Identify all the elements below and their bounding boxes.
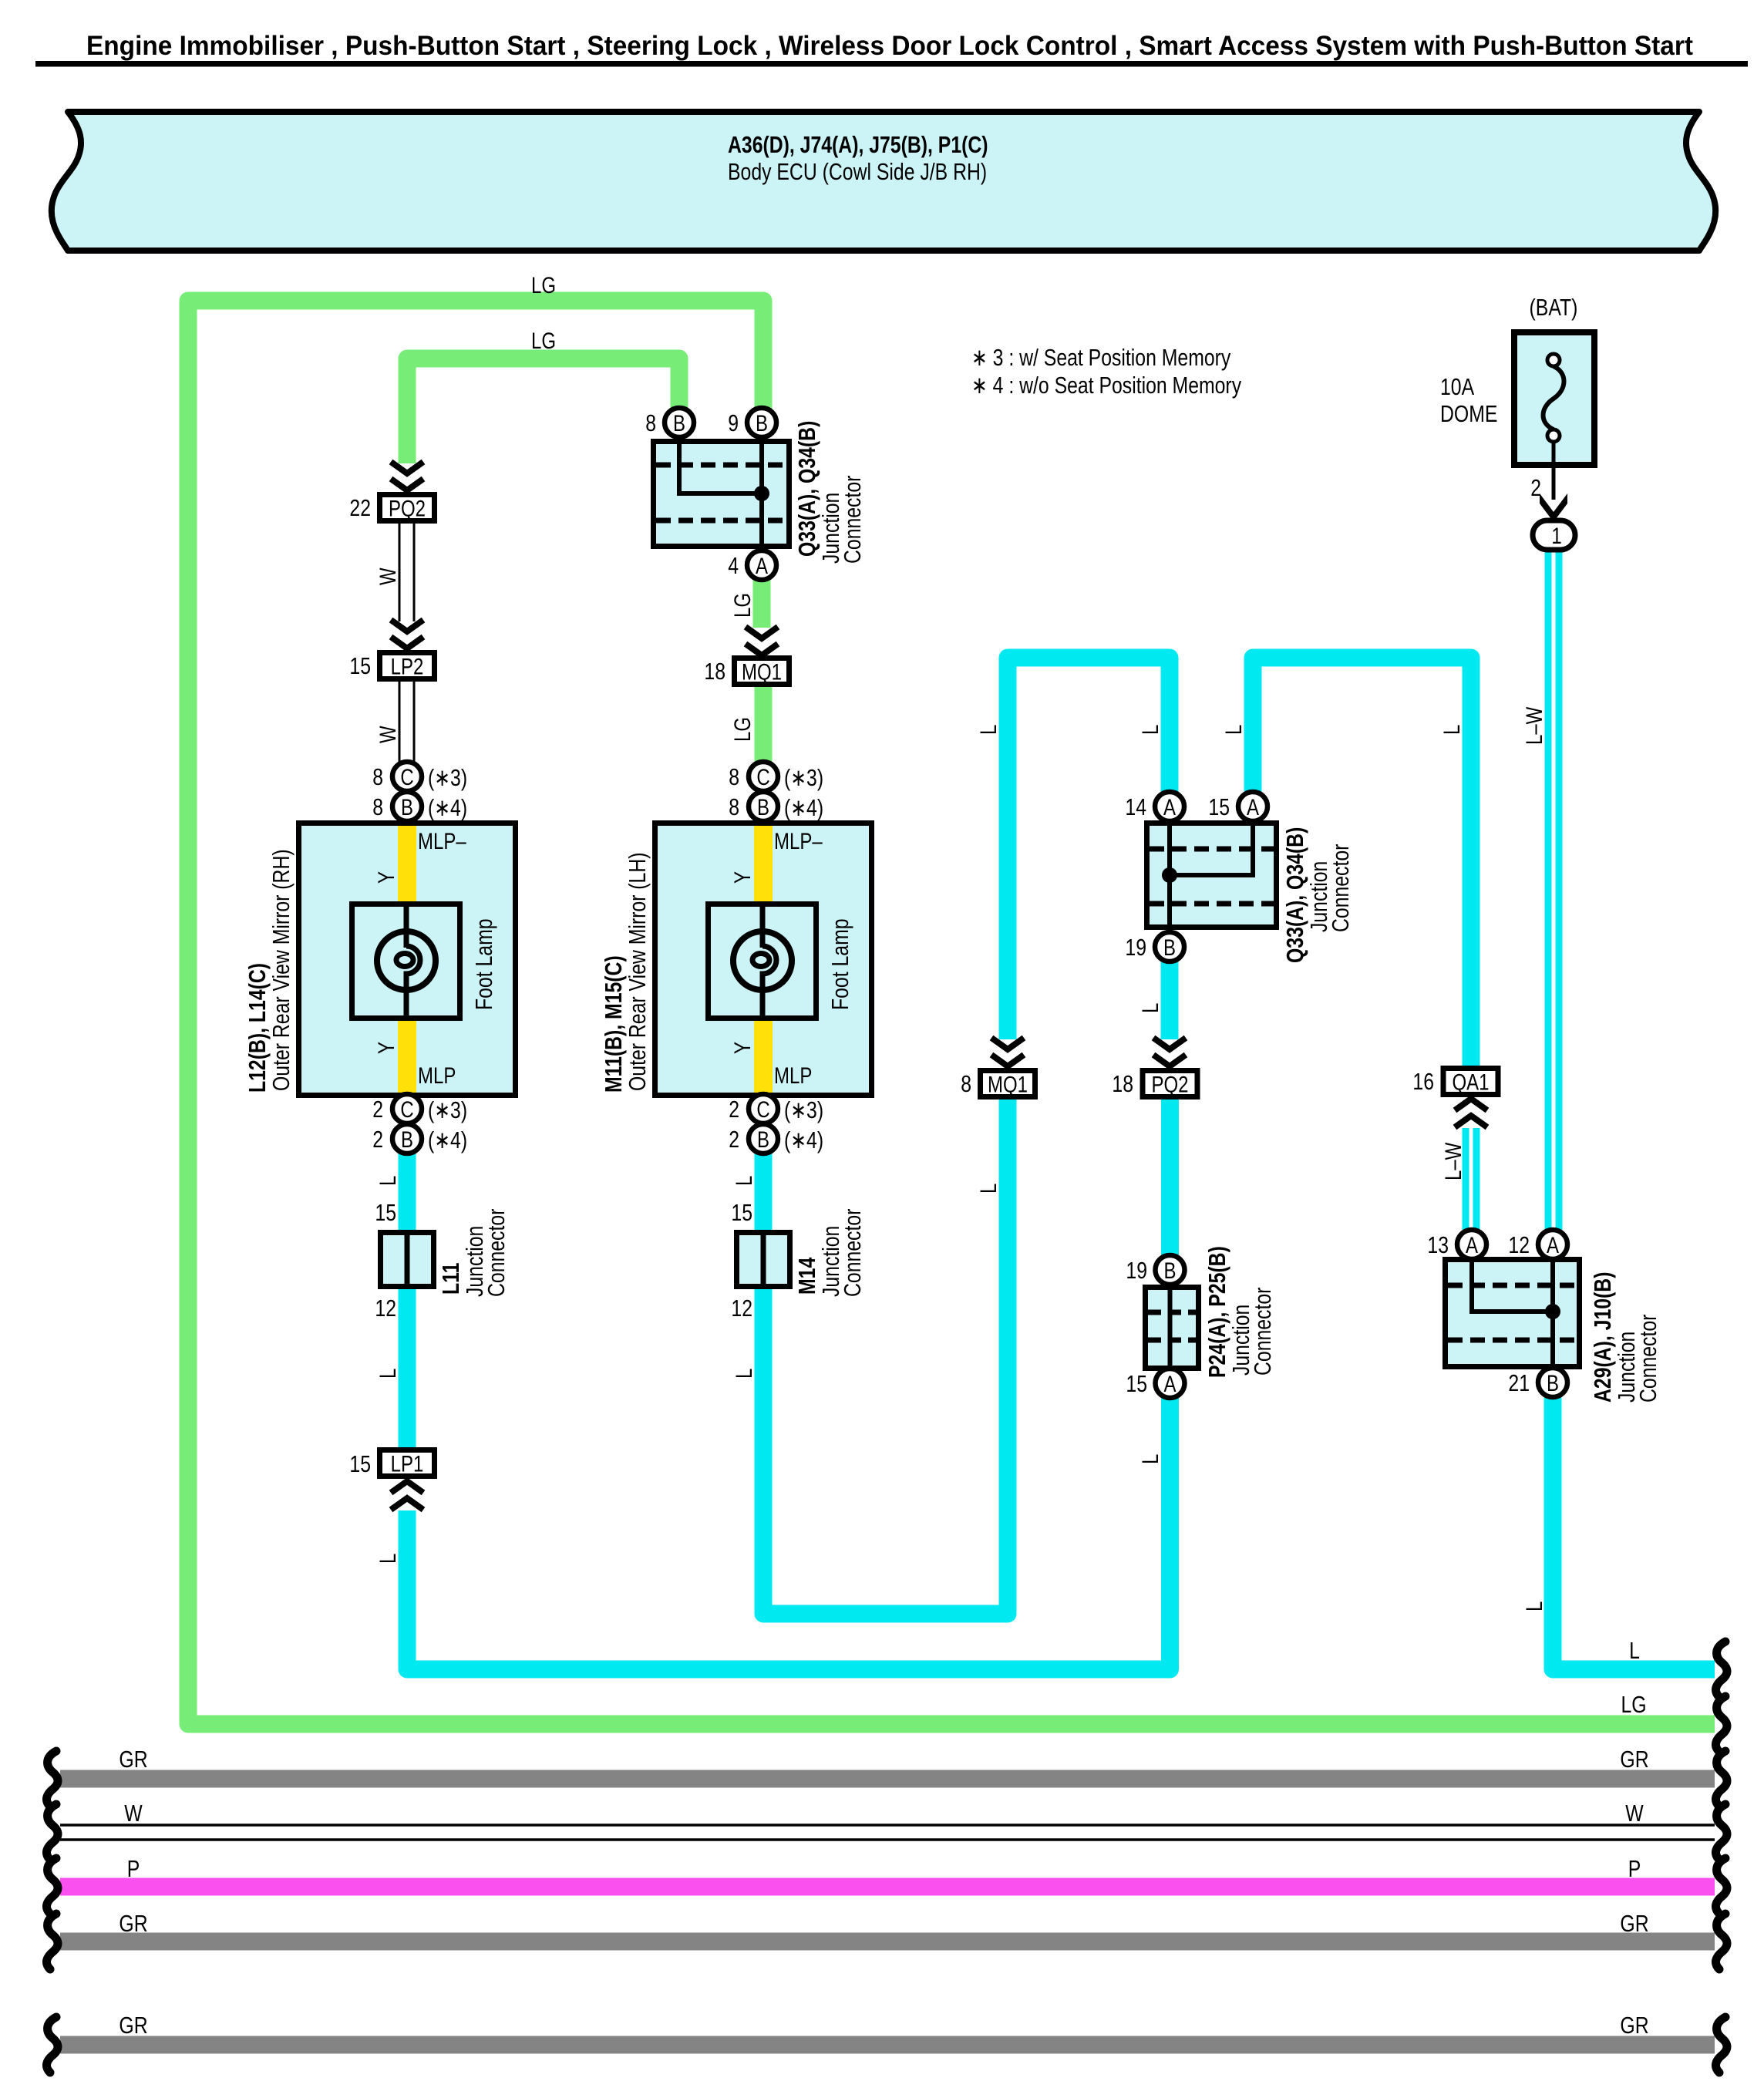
svg-text:LG: LG [531,271,556,298]
svg-text:12: 12 [1508,1231,1530,1258]
bus wire P [60,1878,1715,1896]
wire Y lower in mirror LH [754,1021,773,1093]
junction connector M14 [737,1232,790,1287]
svg-text:Connector: Connector [839,1209,865,1297]
note *3 w/ Seat Position Memory [971,344,1230,370]
svg-text:GR: GR [119,1910,147,1936]
svg-text:13: 13 [1427,1231,1449,1258]
svg-text:P: P [127,1855,140,1881]
label Foot Lamp LH [826,918,853,1010]
svg-text:8: 8 [372,763,383,790]
label 18 MQ1 [704,658,725,684]
pin 19 B of P24 [1126,1255,1184,1285]
wire Y upper in mirror LH [754,826,773,901]
svg-text:15: 15 [1208,793,1230,820]
component Outer Rear View Mirror (LH) M11(B), M15(C) [655,823,872,1096]
label L12(B), L14(C) Outer Rear View Mirror (RH) [244,849,294,1093]
svg-text:(∗4): (∗4) [784,794,823,820]
svg-text:A: A [1163,793,1177,820]
arrow down to MQ1 (18) [746,627,778,655]
svg-text:PQ2: PQ2 [389,495,426,521]
svg-text:L: L [1220,725,1246,735]
arrow up below LP1 [391,1481,423,1510]
svg-text:Q33(A), Q34(B): Q33(A), Q34(B) [1281,827,1308,963]
svg-text:B: B [1163,1257,1176,1283]
svg-text:(BAT): (BAT) [1530,294,1578,320]
arrow down to PQ2 (18) [1153,1038,1186,1066]
svg-text:Connector: Connector [1634,1315,1661,1403]
wire LG inner: Body ECU to PQ2 arrow and 8B [407,359,679,463]
svg-text:15: 15 [731,1199,752,1225]
svg-text:GR: GR [119,2012,147,2038]
left continuation squiggle W bus [46,1804,58,1860]
svg-text:(∗3): (∗3) [428,1096,467,1123]
label MLP mirror RH [418,1062,456,1088]
pin 15 A of Q33 right [1208,792,1267,821]
svg-text:19: 19 [1125,934,1146,960]
label 12 below L11 [375,1295,396,1321]
svg-text:P: P [1628,1855,1641,1881]
svg-text:L: L [975,725,1001,735]
svg-text:B: B [1163,934,1176,960]
wire LG outer: Body ECU to 9B Q33(A)/Q34(B) and down left side to LG bus [188,301,1715,1724]
svg-text:MLP: MLP [774,1062,812,1088]
svg-text:15: 15 [349,1450,371,1477]
label L below 21B [1520,1601,1547,1611]
svg-text:12: 12 [375,1295,396,1321]
svg-text:Foot Lamp: Foot Lamp [470,918,497,1010]
svg-text:A: A [1547,1231,1560,1258]
pin 2 B (*4) mirror RH [372,1124,467,1153]
svg-text:Y: Y [729,871,755,884]
label Q33(A), Q34(B) Junction Connector right [1281,827,1353,963]
label 10A DOME [1440,373,1497,426]
svg-text:GR: GR [1620,1746,1648,1772]
label MLP- mirror RH [418,827,466,854]
wire L: 21B A29/J10 down to L bus right segment [1553,1397,1715,1669]
connector box LP1 pin 15 [380,1450,435,1477]
svg-text:Connector: Connector [839,476,865,564]
label L-W DOME fuse column [1520,706,1547,745]
label L mirror RH lower [374,1176,400,1186]
svg-text:GR: GR [1620,2012,1648,2038]
svg-text:1: 1 [1551,522,1561,548]
label A29(A), J10(B) Junction Connector [1589,1272,1661,1403]
svg-text:18: 18 [704,658,725,684]
foot lamp LH bulb box [709,904,816,1019]
svg-text:L–W: L–W [1520,706,1547,745]
connector box LP2 pin 15 [380,653,435,680]
wire L: 15A Q33/Q34 up, over, down to QA1 box [1253,658,1471,1066]
pin 8 C (*3) mirror RH [372,762,467,791]
label GR lower bus left [119,2012,147,2038]
bus wire W [60,1825,1715,1840]
label Y upper mirror LH [729,871,755,884]
label 2 fuse terminal [1530,474,1541,500]
connector box MQ1 pin 8 [981,1071,1035,1098]
svg-text:GR: GR [119,1746,147,1772]
bus wire GR upper [60,1770,1715,1788]
component Outer Rear View Mirror (RH) L12(B), L14(C) [299,823,516,1096]
svg-text:A36(D), J74(A), J75(B), P1(C): A36(D), J74(A), J75(B), P1(C) [728,131,988,157]
svg-text:L11: L11 [437,1263,463,1295]
label 18 PQ2 [1112,1070,1133,1096]
svg-text:P24(A), P25(B): P24(A), P25(B) [1203,1246,1230,1378]
svg-text:PQ2: PQ2 [1151,1071,1188,1097]
label GR upper bus right [1620,1746,1648,1772]
pin 8 B of Q33 upper [645,408,694,437]
pin 15 A of P24 [1126,1369,1184,1398]
svg-text:L: L [975,1184,1001,1194]
left continuation squiggle GR upper bus [46,1751,58,1807]
note *4 w/o Seat Position Memory [971,372,1241,398]
label GR middle bus left [119,1910,147,1936]
svg-text:M11(B), M15(C): M11(B), M15(C) [600,955,626,1093]
pin 4 A of Q33 upper [728,551,776,580]
svg-text:2: 2 [1530,474,1541,500]
svg-text:Y: Y [372,871,399,884]
foot lamp RH bulb box [352,904,460,1019]
svg-text:B: B [401,1126,413,1152]
right continuation squiggle LG bus [1715,1696,1727,1752]
svg-text:21: 21 [1508,1369,1530,1396]
svg-text:L: L [1438,725,1464,735]
right continuation squiggle W bus [1715,1804,1727,1860]
fuse 10A DOME [1514,332,1594,500]
pin 8 C (*3) mirror LH [729,762,823,791]
svg-text:16: 16 [1412,1068,1434,1094]
svg-text:LG: LG [729,593,755,618]
wire LG: 4A Q33 to MQ1 box [753,580,771,628]
svg-text:9: 9 [728,409,739,436]
label MLP- mirror LH [774,827,823,854]
svg-text:(∗4): (∗4) [428,1126,467,1153]
svg-text:Foot Lamp: Foot Lamp [826,918,853,1010]
svg-text:L: L [1136,1003,1163,1013]
svg-text:∗ 4 : w/o Seat Position Memory: ∗ 4 : w/o Seat Position Memory [971,372,1241,398]
pin 9 B of Q33 upper [728,408,776,437]
svg-text:8: 8 [961,1070,971,1096]
svg-text:C: C [400,763,413,790]
svg-text:B: B [757,793,769,820]
arrow down to PQ2 [391,462,423,490]
label L above QA1 [1438,725,1464,735]
label W lower (LP2-mirror) [374,726,400,743]
svg-text:Engine Immobiliser , Push-Butt: Engine Immobiliser , Push-Button Start ,… [86,31,1693,61]
svg-text:A: A [1163,1370,1177,1396]
label 16 QA1 [1412,1068,1434,1094]
bus wire GR middle [60,1933,1715,1951]
wire L: mirror LH pin 2B through M14 down, right, up to MQ1 box [763,1099,1008,1614]
svg-text:2: 2 [372,1126,383,1152]
label 15 LP2 [349,652,371,679]
pin 2 B (*4) mirror LH [729,1124,823,1153]
label M11(B), M15(C) Outer Rear View Mirror (LH) [600,852,650,1093]
pin 2 C (*3) mirror LH [729,1094,823,1123]
svg-text:L12(B), L14(C): L12(B), L14(C) [244,963,270,1093]
svg-text:2: 2 [729,1126,739,1152]
label Y upper mirror RH [372,871,399,884]
svg-text:12: 12 [731,1295,752,1321]
svg-text:∗ 3 : w/ Seat Position Memory: ∗ 3 : w/ Seat Position Memory [971,344,1230,370]
pin 8 B (*4) mirror LH [729,792,823,821]
pin 14 A of Q33 right [1125,792,1184,821]
svg-text:C: C [400,1096,413,1122]
label L below L11 [374,1369,400,1379]
right continuation squiggle GR middle bus [1715,1914,1727,1969]
svg-text:15: 15 [375,1199,396,1225]
svg-text:A: A [1466,1231,1479,1258]
label MLP mirror LH [774,1062,812,1088]
connector banner A36(D), J74(A), J75(B), P1(C) Body ECU (Cowl Side J/B RH) [52,112,1715,251]
svg-text:L: L [730,1369,756,1379]
label L below P24 15A [1136,1454,1163,1464]
label Y lower mirror LH [729,1042,755,1054]
label Y lower mirror RH [372,1042,399,1054]
svg-text:C: C [756,763,769,790]
label 8 MQ1 [961,1070,971,1096]
label GR lower bus right [1620,2012,1648,2038]
label W bus left [124,1800,143,1826]
svg-text:A: A [756,552,769,578]
junction connector Q33(A), Q34(B) upper block [654,442,789,547]
connector box PQ2 pin 18 [1143,1071,1197,1098]
label (BAT) [1530,294,1578,320]
svg-text:LG: LG [531,327,556,353]
connector box QA1 pin 16 [1443,1069,1498,1096]
wire L: MQ1 box up, over, down to 14A Q33/Q34 [1008,658,1170,1039]
svg-text:W: W [374,726,400,743]
svg-text:Outer Rear View Mirror (LH): Outer Rear View Mirror (LH) [624,852,650,1091]
left continuation squiggle GR middle bus [46,1914,58,1969]
svg-text:W: W [124,1800,143,1826]
svg-text:(∗3): (∗3) [428,764,467,790]
svg-text:L: L [1520,1601,1547,1611]
svg-text:W: W [1625,1800,1644,1826]
svg-text:L: L [1136,725,1163,735]
arrow solid down from fuse [1540,493,1567,522]
label P24(A), P25(B) Junction Connector [1203,1246,1275,1378]
svg-text:MQ1: MQ1 [742,658,782,685]
wire L: PQ2 box down to 19B P24/P25 [1161,1099,1179,1258]
wire L-W: QA1 arrow down to 13A A29/J10 [1463,1128,1480,1230]
svg-text:8: 8 [729,793,739,820]
svg-text:2: 2 [729,1096,739,1122]
left continuation squiggle P bus [46,1858,58,1914]
wire W: PQ2 to LP2 arrow [399,524,414,621]
wire L-W: DOME fuse terminal 1 down to 12A A29/J10 [1545,549,1563,1230]
label L11 Junction Connector [437,1209,509,1297]
svg-text:DOME: DOME [1440,400,1497,426]
label Foot Lamp RH [470,918,497,1010]
label 15 LP1 [349,1450,371,1477]
label L above Q33 14A [1136,725,1163,735]
svg-text:8: 8 [372,793,383,820]
svg-text:(∗3): (∗3) [784,1096,823,1123]
svg-text:W: W [374,567,400,585]
svg-text:22: 22 [349,494,371,520]
svg-text:MLP–: MLP– [418,827,466,854]
svg-text:L: L [374,1369,400,1379]
label P bus right [1628,1855,1641,1881]
label L below M14 [730,1369,756,1379]
wire Y lower in mirror RH [398,1021,416,1093]
title underline [35,61,1748,67]
svg-text:L: L [730,1176,756,1186]
wire L: below LP1 arrow to L bus corner to P24 15A [407,1398,1170,1669]
label L between 19B and PQ2 arrow [1136,1003,1163,1013]
svg-text:Y: Y [372,1042,399,1054]
svg-text:2: 2 [372,1096,383,1122]
wire LG: MQ1 box to mirror LH pin 8C [755,686,773,762]
svg-text:MQ1: MQ1 [988,1071,1028,1097]
svg-text:QA1: QA1 [1452,1069,1489,1095]
svg-text:8: 8 [729,763,739,790]
pin 13 A of A29 [1427,1230,1486,1259]
svg-text:Body ECU (Cowl Side J/B RH): Body ECU (Cowl Side J/B RH) [728,158,987,184]
wire Y upper in mirror RH [398,826,416,901]
label P bus left [127,1855,140,1881]
label L mirror LH lower [730,1176,756,1186]
right continuation squiggle P bus [1715,1858,1727,1914]
svg-text:GR: GR [1620,1910,1648,1936]
label L above Q33 15A [1220,725,1246,735]
label LG top outer [531,271,556,298]
label GR upper bus left [119,1746,147,1772]
svg-text:LG: LG [729,717,755,742]
arrow down to MQ1 (8) [991,1038,1024,1066]
svg-text:4: 4 [728,552,739,578]
svg-text:B: B [1547,1369,1559,1396]
svg-text:L: L [374,1176,400,1186]
right continuation squiggle GR lower bus [1715,2017,1727,2073]
label 22 PQ2 [349,494,371,520]
label L below MQ1 box [975,1184,1001,1194]
svg-text:18: 18 [1112,1070,1133,1096]
svg-text:C: C [756,1096,769,1122]
svg-text:LP2: LP2 [391,653,424,679]
junction connector A29(A), J10(B) [1446,1260,1580,1367]
label LG (MQ1-mirror LH) [729,717,755,742]
label W bus right [1625,1800,1644,1826]
svg-text:A: A [1247,793,1260,820]
svg-text:L: L [1136,1454,1163,1464]
right continuation squiggle L bus [1715,1642,1727,1697]
svg-text:19: 19 [1126,1257,1147,1283]
svg-text:(∗3): (∗3) [784,764,823,790]
wire W: LP2 to mirror RH pin 8C [399,682,414,762]
label L below LP1 [374,1554,400,1564]
connector box MQ1 pin 18 [735,658,789,685]
svg-text:B: B [756,409,768,436]
label LG bus right [1621,1691,1646,1717]
wire L: 19B Q33/Q34 down to PQ2 arrow [1161,961,1179,1039]
svg-text:L: L [1629,1637,1640,1663]
label GR middle bus right [1620,1910,1648,1936]
svg-text:L: L [374,1554,400,1564]
junction connector L11 [381,1232,434,1287]
junction connector Q33(A), Q34(B) right block [1147,823,1277,928]
svg-text:M14: M14 [793,1257,820,1295]
svg-text:(∗4): (∗4) [784,1126,823,1153]
label W upper (PQ2-LP2) [374,567,400,585]
right continuation squiggle GR upper bus [1715,1751,1727,1807]
terminal oval 1 [1533,520,1575,550]
svg-text:15: 15 [349,652,371,679]
svg-text:MLP: MLP [418,1062,456,1088]
svg-text:Q33(A), Q34(B): Q33(A), Q34(B) [793,421,820,557]
pin 2 C (*3) mirror RH [372,1094,467,1123]
label 15 above L11 [375,1199,396,1225]
bus wire GR lower [60,2036,1715,2054]
label 15 above M14 [731,1199,752,1225]
svg-text:L–W: L–W [1439,1142,1466,1180]
svg-text:14: 14 [1125,793,1146,820]
wire L: mirror RH pin 2B through L11 to LP1 [399,1153,416,1447]
pin 19 B of Q33 right [1125,932,1184,961]
connector box PQ2 pin 22 [380,495,435,522]
svg-text:Connector: Connector [1327,844,1353,932]
svg-text:Y: Y [729,1042,755,1054]
pin 21 B of A29 [1508,1368,1567,1397]
junction connector P24(A), P25(B) [1146,1287,1199,1369]
svg-text:LG: LG [1621,1691,1646,1717]
svg-text:MLP–: MLP– [774,827,823,854]
svg-text:(∗4): (∗4) [428,794,467,820]
label 12 below M14 [731,1295,752,1321]
label Q33(A), Q34(B) Junction Connector upper [793,421,865,564]
arrow up below QA1 [1455,1099,1487,1127]
svg-text:Connector: Connector [1249,1288,1275,1376]
arrow down to LP2 [391,620,423,648]
svg-text:Outer Rear View Mirror (RH): Outer Rear View Mirror (RH) [268,849,294,1091]
label LG top inner [531,327,556,353]
svg-text:A29(A), J10(B): A29(A), J10(B) [1589,1272,1615,1403]
label L-W QA1 to 13A [1439,1142,1466,1180]
svg-text:B: B [673,409,685,436]
svg-text:LP1: LP1 [391,1450,424,1477]
label LG (4A-MQ1) [729,593,755,618]
pin 8 B (*4) mirror RH [372,792,467,821]
svg-text:Connector: Connector [483,1209,509,1297]
pin 12 A of A29 [1508,1230,1567,1259]
svg-text:B: B [757,1126,769,1152]
label L left of MQ1 riser upper [975,725,1001,735]
label M14 Junction Connector [793,1209,865,1297]
svg-text:10A: 10A [1440,373,1474,399]
left continuation squiggle GR lower bus [46,2017,58,2073]
svg-text:8: 8 [645,409,656,436]
label L bus right [1629,1637,1640,1663]
svg-text:B: B [401,793,413,820]
svg-text:15: 15 [1126,1370,1147,1396]
